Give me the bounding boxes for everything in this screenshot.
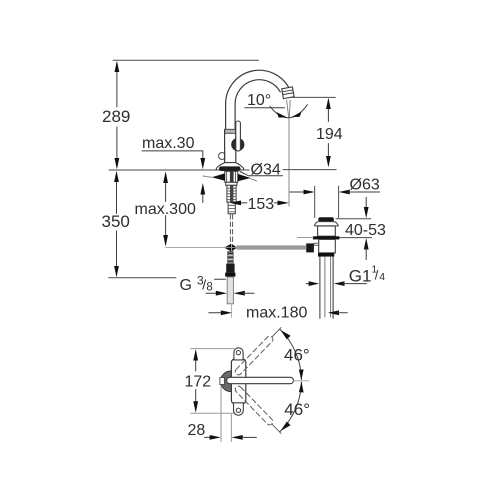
base flare [216,163,243,170]
pull rod dashed [230,215,232,243]
base flange dark lens [219,166,241,171]
spout gooseneck inner arc [235,80,280,131]
svg-text:172: 172 [185,374,212,391]
svg-text:153: 153 [248,196,275,213]
svg-text:194: 194 [316,126,343,143]
swivel arc lower [280,382,302,432]
svg-text:G1: G1 [349,266,372,285]
40-53 dimension [365,197,367,208]
svg-text:Ø63: Ø63 [350,177,380,194]
G 3/8 label [180,274,213,294]
max.30 lower arrow [202,193,204,203]
194 extension lines [292,96,335,98]
10 degree reference line [245,107,285,109]
handle lever [236,121,241,151]
svg-text:46°: 46° [284,346,310,365]
swivel ring [221,371,242,392]
arc arrowheads lower [299,382,304,393]
water stream [287,100,291,206]
clamp wedge right [238,174,251,181]
tailpipe [320,257,333,319]
G3/8 leader [215,278,226,280]
striped adapter [228,252,234,264]
drain flange [314,222,338,226]
spout gooseneck outer arc [226,70,290,131]
swivel arc upper [280,329,302,379]
svg-text:G: G [180,277,192,294]
28 dimension [220,386,222,442]
drain stem box [318,226,336,236]
svg-text:289: 289 [102,107,130,126]
dia63 extension lines [314,186,316,217]
G1-1/4 arrows [306,283,312,285]
max.300 dimension [165,174,167,245]
drain locknut [318,253,334,257]
svg-text:max.180: max.180 [246,305,307,322]
clamp wedge left [212,173,225,180]
top knob [234,348,243,360]
289 dimension [116,63,118,167]
rod thin extension to max300 line [166,246,237,248]
shank collar band [226,182,237,185]
solid spout capsule [227,377,294,383]
small side bump [219,153,224,160]
svg-text:/: / [375,268,379,283]
supply hose [227,277,233,318]
below-deck shank box [225,171,238,182]
10 degree arc with arrows [270,105,307,118]
pop-up plug cap [318,217,334,221]
ring slot [220,378,225,385]
G3/8 connector nut [226,264,234,273]
153 dimension [234,202,247,204]
threaded section [227,185,236,202]
clamp wedge left tail [203,176,213,177]
svg-text:4: 4 [379,271,385,283]
top view body [231,359,245,404]
40-53 reference lines [336,218,371,220]
svg-text:max.30: max.30 [142,135,195,152]
dashed capsule lower (46 deg down) [234,385,283,436]
max.30 leader [142,151,203,160]
deck / counter line [109,169,249,171]
svg-text:28: 28 [188,422,206,439]
bottom tab [234,403,244,415]
svg-text:10°: 10° [247,92,271,109]
handle pivot dark circle [231,138,244,151]
svg-text:max.300: max.300 [135,201,196,218]
svg-text:8: 8 [206,282,212,294]
drain body box [319,239,336,253]
horizontal pop-up rod [237,245,307,249]
350 bottom extension line [109,277,176,279]
dashed capsule upper (46 deg up) [234,325,283,376]
faucet body [225,129,236,133]
lower stem [228,202,235,214]
arc arrowheads upper [281,330,291,339]
289 top extension line [113,59,258,61]
svg-text:40-53: 40-53 [345,222,386,239]
linkage nut [306,243,314,252]
172 extension lines [191,348,234,350]
svg-text:350: 350 [102,212,130,231]
G1 1/4 label [349,264,386,285]
G3/8 arrows [206,292,218,294]
rod junction bowtie [224,244,231,252]
350 dimension [116,173,118,275]
clamp wedge right tail [250,178,257,181]
svg-text:46°: 46° [284,400,310,419]
194 dimension [327,100,329,165]
dia63 arrows [290,191,306,193]
sink line thin left [298,237,314,239]
capsule axis tick [294,380,309,382]
172 dimension [195,352,197,411]
max.180 dimension [209,312,224,314]
spout outlet aerator [282,87,294,99]
sink line dark band [313,236,339,239]
